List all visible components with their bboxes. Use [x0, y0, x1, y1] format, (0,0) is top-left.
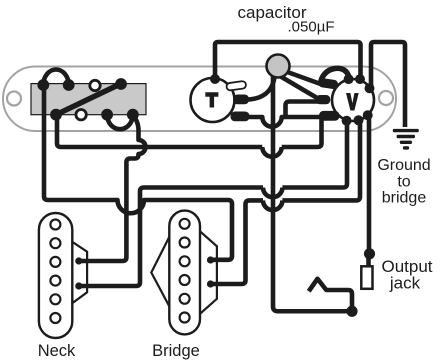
svg-text:Neck: Neck	[38, 342, 76, 360]
svg-text:jack: jack	[389, 274, 421, 293]
svg-text:bridge: bridge	[382, 190, 427, 207]
svg-text:to: to	[397, 174, 410, 191]
svg-text:.050µF: .050µF	[288, 19, 335, 36]
svg-text:Ground: Ground	[377, 157, 430, 174]
svg-text:Bridge: Bridge	[152, 342, 200, 360]
